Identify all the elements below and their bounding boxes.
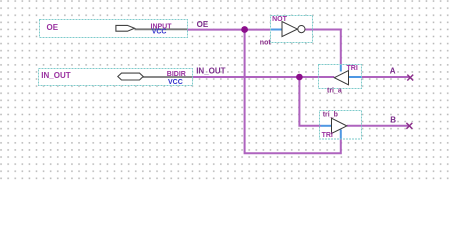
svg-text:VCC: VCC [168, 79, 183, 86]
svg-text:B: B [390, 115, 396, 124]
svg-text:BIDIR: BIDIR [167, 71, 186, 78]
svg-text:OE: OE [197, 20, 209, 29]
svg-text:NOT: NOT [272, 16, 288, 23]
svg-text:IN_OUT: IN_OUT [41, 71, 70, 80]
svg-text:OE: OE [47, 23, 59, 32]
svg-text:not: not [260, 39, 272, 46]
svg-text:IN_OUT: IN_OUT [196, 67, 225, 76]
svg-text:A: A [390, 67, 396, 76]
svg-text:tri_a: tri_a [327, 88, 342, 95]
svg-text:TRI: TRI [322, 132, 333, 139]
svg-text:tri_b: tri_b [323, 112, 338, 119]
svg-text:TRI: TRI [347, 65, 358, 72]
svg-text:VCC: VCC [152, 29, 167, 36]
